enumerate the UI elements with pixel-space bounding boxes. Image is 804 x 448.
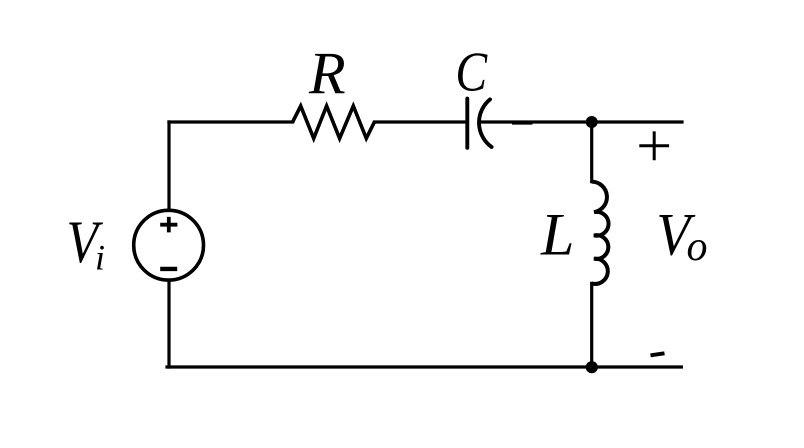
svg-text:R: R — [308, 41, 346, 107]
svg-text:C: C — [455, 42, 488, 103]
svg-text:i: i — [95, 238, 105, 278]
svg-text:o: o — [687, 224, 708, 270]
svg-text:L: L — [540, 202, 574, 268]
